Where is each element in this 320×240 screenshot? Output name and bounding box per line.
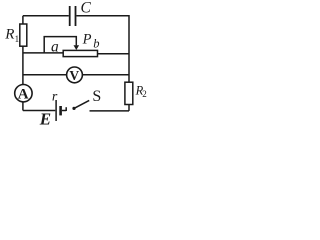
svg-text:r: r <box>52 90 58 105</box>
svg-text:1: 1 <box>15 34 20 44</box>
svg-text:S: S <box>92 88 101 105</box>
svg-text:R: R <box>4 27 14 43</box>
svg-text:E: E <box>39 110 51 126</box>
svg-text:P: P <box>82 32 92 48</box>
svg-text:V: V <box>69 68 79 83</box>
svg-text:b: b <box>93 37 99 51</box>
svg-text:A: A <box>18 86 29 102</box>
svg-text:2: 2 <box>142 89 147 99</box>
svg-text:C: C <box>81 0 92 17</box>
svg-text:a: a <box>51 38 59 55</box>
